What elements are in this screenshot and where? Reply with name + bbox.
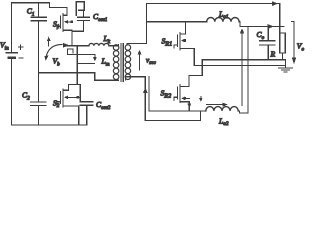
transformer primary winding [113, 45, 119, 80]
wire secondary top to riser [127, 4, 147, 44]
resistor R [280, 33, 286, 53]
svg-text:C2: C2 [22, 91, 30, 102]
wire node-T to Lo1 [147, 21, 207, 23]
transformer secondary winding [125, 45, 130, 80]
svg-text:Coss2: Coss2 [96, 100, 111, 111]
wire Lk to primary top [109, 45, 119, 46]
Vb arc annotation [46, 44, 62, 57]
wire SR2 drain to riser [189, 75, 202, 77]
svg-text:SR1: SR1 [162, 37, 173, 48]
wire crossover hop above Coss1 [76, 2, 84, 16]
wire Lo1 to output plus [239, 22, 284, 27]
svg-text:Vin: Vin [0, 41, 9, 52]
inductor Lo1 [207, 17, 239, 21]
svg-text:C1: C1 [27, 7, 35, 18]
current arrow on riser A [143, 87, 147, 93]
Lm current loop annotation [68, 49, 95, 64]
wire bridge node to Lk [64, 45, 89, 47]
svg-text:S2: S2 [53, 98, 60, 109]
svg-text:R: R [270, 49, 276, 58]
wire R bottom [282, 53, 284, 60]
svg-text:Lm: Lm [101, 57, 110, 68]
svg-text:S1: S1 [53, 19, 60, 30]
svg-text:SR2: SR2 [161, 89, 172, 100]
wire top rail left [11, 3, 67, 8]
svg-text:Vb: Vb [53, 57, 61, 68]
wire secondary bottom riser A [126, 77, 146, 121]
transistor SR1 [174, 22, 194, 50]
battery minus sign [19, 57, 23, 59]
inductor Lo2 [206, 107, 238, 111]
capacitor Coss2 [80, 102, 93, 125]
transistor SR2 [174, 76, 189, 103]
capacitor C1 [31, 3, 46, 21]
svg-text:Lo1: Lo1 [218, 9, 229, 20]
wire mid rail to Lo2 [149, 110, 206, 112]
capacitor Coss1 [72, 10, 90, 31]
transformer core [120, 43, 122, 81]
svg-text:Vo: Vo [297, 42, 305, 53]
capacitor C2 [31, 102, 46, 125]
wire SR1 source down to output minus [193, 49, 195, 66]
wire top rail drop to R [279, 4, 281, 33]
svg-text:Coss1: Coss1 [93, 12, 108, 23]
wire secondary bottom riser B [148, 77, 150, 111]
current arrow on SR2 source [187, 104, 191, 108]
iLo2 annotation arrow [241, 33, 243, 106]
transistor S2 [57, 85, 79, 107]
wire S1 source down to bridge node [71, 30, 73, 46]
current arrow on top rail [272, 1, 279, 6]
vsec annotation arrow [139, 54, 141, 70]
wire S2 source to bottom rail [78, 106, 80, 125]
wire top output rail [147, 3, 280, 5]
iLo2 current path arrows [201, 96, 222, 104]
svg-text:Co: Co [257, 30, 265, 41]
bridge-leg midpoint vertical [76, 46, 78, 85]
wire bottom return rail [145, 111, 200, 121]
wire bottom rail [11, 124, 85, 126]
wire ground branch [194, 64, 285, 66]
wire Lo2 return riser [238, 27, 248, 113]
wire output minus node [202, 60, 285, 76]
small up arrow annotation [48, 40, 50, 47]
wire SR2 source down to mid rail [188, 102, 190, 111]
svg-text:Lo2: Lo2 [218, 116, 229, 127]
wire S2 drain over to Coss2 [69, 85, 81, 102]
svg-text:vsec: vsec [146, 57, 157, 67]
battery Vin [6, 3, 17, 125]
Vo annotation arrow [293, 22, 295, 59]
capacitor Co [260, 27, 276, 60]
wire ground stem [285, 60, 287, 68]
current arrow into Lk [63, 43, 69, 48]
transistor S1 [57, 8, 73, 32]
ground [278, 68, 292, 72]
wire capacitor-leg midpoint vertical [38, 21, 40, 102]
inductor Lk [89, 43, 109, 45]
battery plus sign [18, 45, 23, 50]
current arrow on output wire [268, 24, 274, 29]
wire cap midpoint to primary bottom [39, 73, 119, 81]
